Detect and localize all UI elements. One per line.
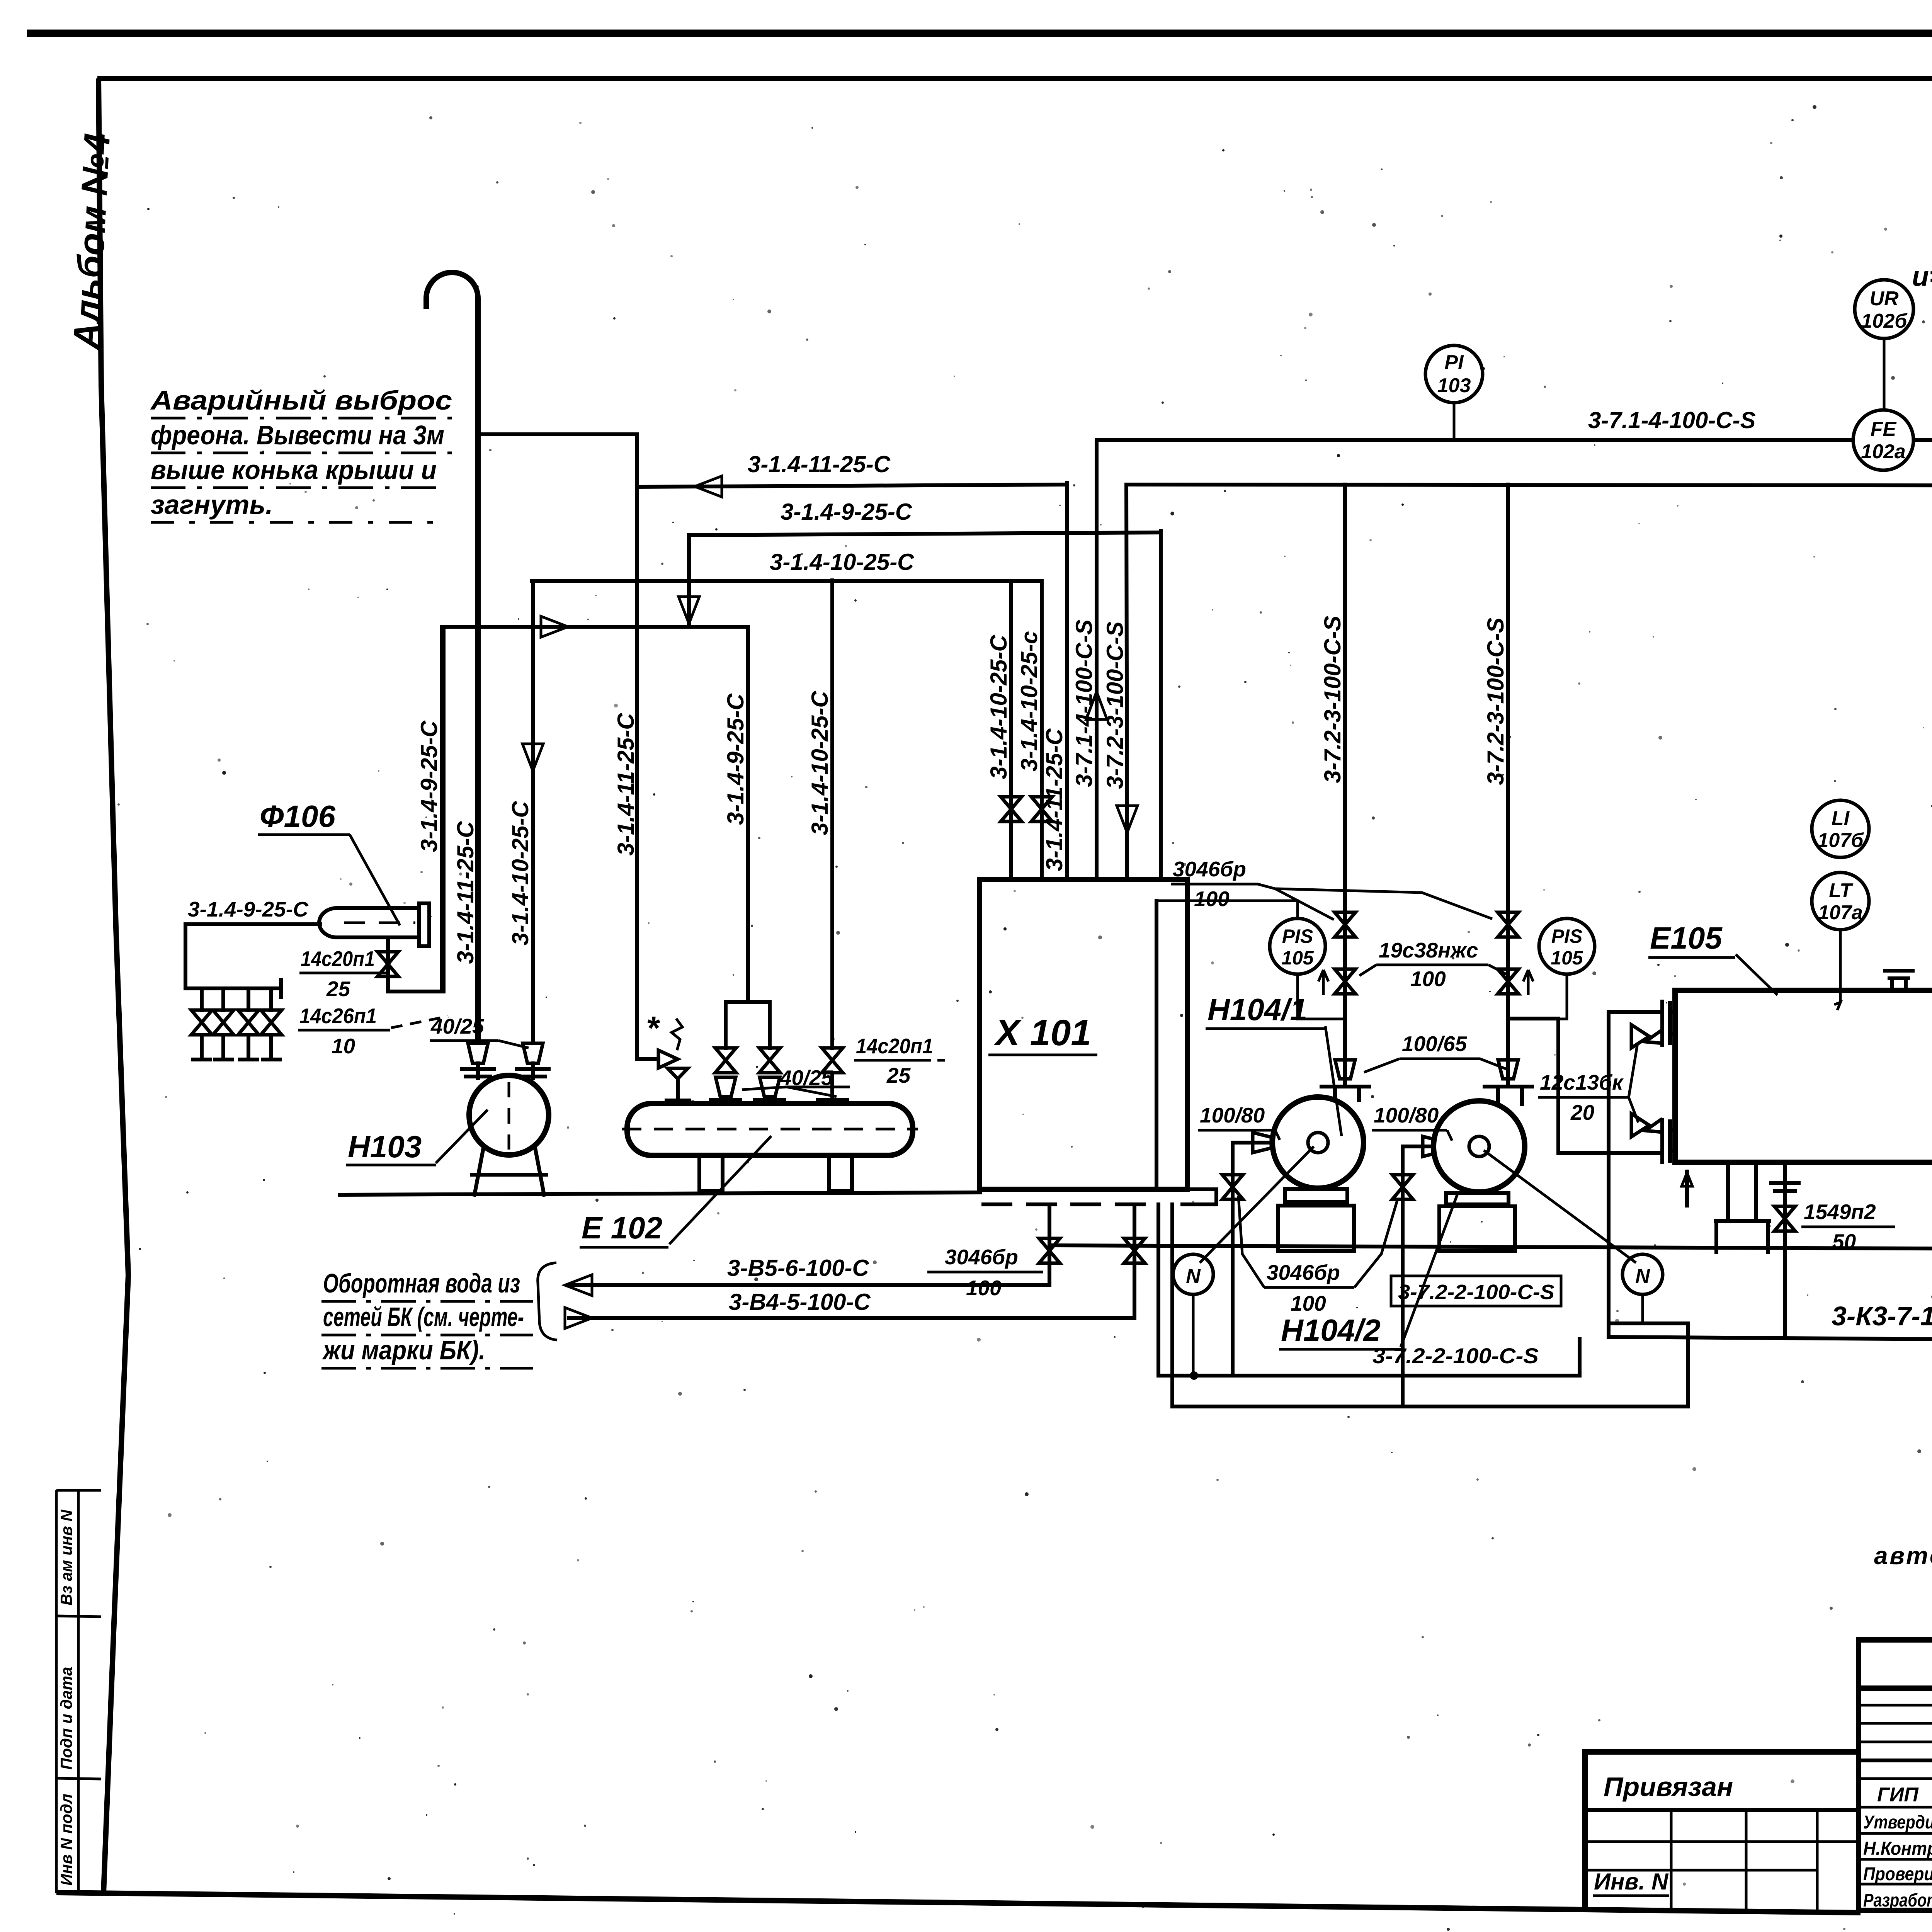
svg-text:Оборотная вода из: Оборотная вода из: [323, 1268, 520, 1298]
svg-text:50: 50: [1832, 1230, 1856, 1253]
valve pump1 suction: [1222, 1175, 1243, 1199]
valve 14c20п1 filter outlet: [378, 952, 398, 976]
svg-text:Е 102: Е 102: [582, 1211, 662, 1245]
E105 support left: [1716, 1162, 1769, 1252]
pump H104/1 pedestal top: [1285, 1189, 1347, 1202]
vessel E102 body: [627, 1104, 913, 1155]
E105 LT dip connection: [1834, 929, 1840, 1010]
outer top border: [27, 30, 1932, 37]
svg-text:N: N: [1635, 1265, 1650, 1287]
inner frame left: [99, 78, 128, 1893]
svg-text:*: *: [646, 1010, 660, 1047]
svg-text:3-7.2-2-100-С-S: 3-7.2-2-100-С-S: [1398, 1281, 1554, 1304]
wire pump2 discharge riser 3-7.2-3 x=3903: [1506, 485, 1510, 1084]
E105 drain valve 1549п2: [1774, 1206, 1795, 1231]
filter centerline dash: [344, 922, 415, 924]
svg-text:3-1.4-10-25-С: 3-1.4-10-25-С: [770, 549, 915, 575]
pump H104/2 hub: [1469, 1136, 1489, 1156]
pump H104/1 base: [1278, 1206, 1354, 1251]
wire branch vertical x=1649 down to relief: [637, 434, 658, 1059]
reducer pump2 discharge: [1498, 1060, 1518, 1079]
pump H104/2 pedestal top: [1446, 1193, 1509, 1204]
svg-text:107б: 107б: [1818, 829, 1864, 852]
wire vent branch right: [478, 432, 637, 436]
svg-text:сетей БК (см. черте-: сетей БК (см. черте-: [323, 1302, 524, 1332]
svg-text:3-1.4-11-25-С: 3-1.4-11-25-С: [748, 451, 891, 477]
E105 drain flange: [1771, 1183, 1799, 1191]
svg-text:жи марки БК).: жи марки БК).: [322, 1335, 485, 1365]
filter Ф106 body: [319, 908, 419, 937]
pump H104/1 hub: [1308, 1133, 1328, 1153]
check arrow tick pump2: [1523, 970, 1533, 995]
svg-text:ГИП: ГИП: [1877, 1784, 1919, 1806]
E102 valve3: [822, 1048, 843, 1073]
manifold end tick: [279, 980, 283, 997]
svg-text:105: 105: [1551, 947, 1583, 969]
E102 centerline dash: [622, 1128, 918, 1131]
X101 bottom right step: [1182, 1189, 1216, 1204]
E102 valve1: [715, 1048, 736, 1073]
svg-text:100: 100: [966, 1276, 1002, 1300]
svg-text:1549п2: 1549п2: [1804, 1200, 1876, 1224]
leaders 19с38нжс to check valves: [1359, 965, 1507, 976]
E102 valve2: [759, 1048, 780, 1073]
svg-text:3-7.2-3-100-С-S: 3-7.2-3-100-С-S: [1102, 621, 1128, 789]
leader H103: [436, 1110, 488, 1163]
svg-text:105: 105: [1281, 947, 1314, 969]
E102 flange1: [711, 1100, 740, 1104]
svg-text:40/25: 40/25: [430, 1014, 485, 1038]
wire pump2 discharge jog to E105 nozzle4: [1508, 1019, 1660, 1153]
wire line C 3-1.4-10-25-C y=1504: [532, 579, 1042, 583]
wire line A 3-1.4-11-25-C y=1258: [637, 485, 1067, 487]
svg-text:Проверил: Проверил: [1863, 1864, 1932, 1884]
E105 left collector vertical: [1607, 1012, 1611, 1337]
svg-text:FE: FE: [1871, 418, 1897, 440]
leader E102: [669, 1136, 771, 1244]
E105 drain pipe: [1783, 1162, 1787, 1337]
svg-text:PIS: PIS: [1551, 925, 1583, 947]
E102 cone2: [760, 1077, 780, 1097]
manifold stem 3: [240, 1035, 257, 1060]
svg-text:10: 10: [332, 1034, 355, 1058]
svg-text:103: 103: [1437, 374, 1471, 397]
valve X101 drain1: [1039, 1238, 1060, 1263]
wire line B right drop into X101: [1159, 531, 1163, 879]
arrow up small at 4366: [1682, 1173, 1692, 1186]
leader Ф106: [350, 835, 400, 925]
TITLEBLOCK: [1585, 1640, 1932, 1932]
wire line B4 y=3411: [569, 1316, 1134, 1320]
filter Ф106 flange plate: [419, 903, 429, 946]
bracket for BK water: [538, 1263, 557, 1340]
wire line B5 y=3326: [570, 1283, 1049, 1287]
instrument PIS 105 no.1: [1270, 918, 1325, 974]
svg-text:автоматизации приняты по ГО: автоматизации приняты по ГОСТ 21.404-85: [1874, 1542, 1932, 1570]
E102 saddle left: [699, 1155, 723, 1191]
svg-text:100: 100: [1194, 887, 1230, 911]
manifold valve 1: [191, 1010, 212, 1035]
valve X101 drain2: [1124, 1238, 1145, 1263]
svg-text:3-К3-7-100-С: 3-К3-7-100-С: [1832, 1301, 1932, 1331]
arrow B4 left end: [565, 1308, 592, 1328]
pump H104/2 circle: [1434, 1101, 1525, 1192]
svg-text:19с38нжс: 19с38нжс: [1379, 938, 1478, 962]
wire line C branch down to E102 valve3: [830, 580, 834, 1048]
E105 left nozzle2 flanges: [1662, 1023, 1675, 1045]
pump H104/2 base: [1439, 1206, 1515, 1251]
reducer pump1 discharge: [1335, 1060, 1355, 1079]
wire filter outlet to riser: [388, 628, 444, 992]
wire line C left drop to H103: [531, 581, 535, 1043]
instrument PI 103: [1425, 345, 1483, 403]
svg-text:25: 25: [326, 977, 351, 1001]
E102 flange3: [818, 1100, 847, 1104]
wire line C right drop into X101: [1040, 581, 1044, 879]
title block outline: [1859, 1640, 1932, 1932]
wire line A corner down into X101: [1065, 483, 1069, 879]
wire line B 3-1.4-9-25-C y=1380: [689, 532, 1161, 535]
svg-text:N: N: [1186, 1265, 1201, 1287]
svg-text:12с13бк: 12с13бк: [1540, 1070, 1624, 1094]
svg-text:3-В5-6-100-С: 3-В5-6-100-С: [727, 1255, 869, 1281]
motor N2: [1622, 1254, 1663, 1294]
angle valve lower: [1631, 1114, 1662, 1137]
svg-text:Н104/2: Н104/2: [1281, 1313, 1381, 1347]
instrument LI 107б: [1812, 800, 1869, 857]
svg-text:107а: 107а: [1818, 901, 1863, 924]
wire pump2 suction: [1403, 1146, 1479, 1406]
leaders suction drains: [1238, 1196, 1398, 1287]
E105 left nozzle4 flanges: [1662, 1141, 1675, 1162]
H103 nozzle left flange: [462, 1069, 494, 1077]
svg-text:3-1.4-9-25-С: 3-1.4-9-25-С: [416, 720, 442, 852]
svg-text:Н103: Н103: [348, 1129, 422, 1164]
check valve pump2 riser: [1498, 969, 1519, 994]
svg-text:100/80: 100/80: [1200, 1103, 1265, 1127]
svg-text:Вз ам инв N: Вз ам инв N: [57, 1509, 75, 1605]
svg-text:100/80: 100/80: [1374, 1103, 1439, 1127]
svg-text:3-7.2-2-100-С-S: 3-7.2-2-100-С-S: [1372, 1344, 1539, 1368]
node L1 junction: [1190, 1371, 1198, 1380]
inner frame bottom: [56, 1893, 1861, 1913]
wire stub up at 4366: [1685, 1172, 1689, 1206]
wire pump1 suction: [1233, 1143, 1318, 1376]
arrow down on line C drop: [522, 744, 543, 771]
svg-text:3046бр: 3046бр: [1267, 1260, 1340, 1284]
arrow down line B drop: [679, 597, 699, 624]
wire 3-1.4-10 into X101 second drop: [1009, 581, 1013, 879]
svg-text:Инв N подл: Инв N подл: [57, 1794, 75, 1886]
svg-text:3046бр: 3046бр: [1173, 857, 1246, 881]
E105 left nozzle1 flanges: [1662, 1002, 1675, 1023]
svg-text:фреона. Вывести на 3м: фреона. Вывести на 3м: [151, 420, 444, 450]
wire corner down into X101 (3-7.2-3): [1126, 485, 1127, 879]
manifold valve 2: [213, 1010, 234, 1035]
H103 pedestal: [472, 1146, 546, 1195]
wire E102 manifold split: [726, 1002, 770, 1048]
svg-text:Инв. N: Инв. N: [1594, 1869, 1669, 1895]
wire X101 drain valve1 drop: [1048, 1204, 1051, 1285]
H103 nozzle right flange: [517, 1069, 549, 1077]
wire K3 drain header 3-K3-7-100-C: [1609, 1337, 1932, 1430]
svg-text:14с26п1: 14с26п1: [299, 1004, 377, 1028]
name rows: [1859, 1779, 1932, 1884]
svg-text:3-7.2-3-100-С-S: 3-7.2-3-100-С-S: [1483, 617, 1509, 785]
svg-text:UR: UR: [1869, 287, 1899, 310]
thin rows left: [1859, 1705, 1932, 1742]
wire PIS2 connection: [1508, 966, 1567, 1019]
wire line D right drop to E102 manifold: [746, 627, 750, 1002]
svg-text:3046бр: 3046бр: [945, 1245, 1018, 1269]
PIPES: [185, 272, 1932, 1461]
relief valve angle body: [658, 1050, 688, 1079]
label frame 3-7.2-2 no.1: [1391, 1276, 1561, 1306]
svg-text:25: 25: [886, 1063, 911, 1087]
svg-text:3-1.4-10-25-С: 3-1.4-10-25-С: [986, 634, 1012, 779]
svg-text:выше конька крыши и: выше конька крыши и: [151, 455, 437, 485]
manifold drop 4: [269, 988, 273, 1010]
E102 flange2: [755, 1100, 784, 1104]
INSTRUMENTS: [1173, 280, 1932, 1294]
leaders 3046бр to valves: [1258, 884, 1492, 920]
svg-text:20: 20: [1570, 1100, 1595, 1124]
valve on pump2 riser: [1498, 912, 1519, 937]
E102 valve3 stem: [830, 1073, 834, 1100]
check valve pump1 riser: [1335, 969, 1355, 994]
wire pump1 discharge riser 3-7.2-3 x=3481: [1343, 485, 1347, 1084]
svg-text:загнуть.: загнуть.: [151, 490, 273, 520]
wire emergency vent vertical 3-1.4-11-25-C: [475, 298, 481, 1041]
wire N1 drop: [1192, 1294, 1195, 1376]
motor N1 shaft diagonal: [1200, 1146, 1314, 1263]
arrow down on 3-7.2-3 X101 drop: [1117, 806, 1138, 833]
svg-text:14с20п1: 14с20п1: [301, 947, 375, 971]
manifold valve 4: [261, 1010, 282, 1035]
instrument LT 107а: [1812, 872, 1869, 930]
pump H104/2 nozzle: [1498, 1087, 1522, 1104]
svg-text:Разработ.: Разработ.: [1863, 1890, 1932, 1911]
svg-text:100/65: 100/65: [1402, 1032, 1468, 1056]
manifold stem 2: [215, 1035, 232, 1060]
arrow B5 left end: [565, 1275, 592, 1296]
svg-text:Подп и дата: Подп и дата: [57, 1667, 75, 1770]
H103 nozzle right stub: [531, 1063, 535, 1078]
svg-text:3-В4-5-100-С: 3-В4-5-100-С: [729, 1289, 871, 1315]
svg-text:3-1.4-10-25-с: 3-1.4-10-25-с: [1016, 631, 1042, 772]
Привязан row line: [1585, 1808, 1859, 1812]
sub cols: [1671, 1810, 1817, 1912]
svg-text:Привязан: Привязан: [1604, 1772, 1733, 1802]
left margin strip boxes: [55, 1490, 58, 1893]
svg-text:Утвердил: Утвердил: [1863, 1812, 1932, 1833]
wire UR-FE connect: [1883, 338, 1886, 411]
wire line D left riser from filter: [440, 627, 444, 992]
wire line B left drop to line D: [687, 535, 691, 626]
svg-text:3-1.4-11-25-С: 3-1.4-11-25-С: [452, 821, 478, 964]
pump H104/1 nozzle: [1335, 1087, 1359, 1100]
valve on 2696 drop: [1031, 797, 1052, 821]
manifold stem 1: [193, 1035, 210, 1060]
valve on pump1 riser: [1335, 912, 1355, 937]
wire X101 drain left L1: [1158, 1204, 1580, 1376]
manifold valve 3: [238, 1010, 259, 1035]
manifold drop 2: [221, 988, 225, 1010]
svg-text:Н104/1: Н104/1: [1207, 992, 1307, 1027]
motor N1: [1173, 1254, 1213, 1294]
H103 nozzle left reducer: [468, 1043, 488, 1063]
wire corner down into X101 (3-7.1-4): [1095, 440, 1099, 879]
motor N2 shaft diagonal: [1484, 1150, 1636, 1263]
instrument PIS 105 no.2: [1539, 918, 1595, 974]
wire Ф106 inlet loop: [185, 924, 320, 988]
H103 nozzle right reducer: [523, 1043, 543, 1063]
inner frame top: [97, 76, 1932, 81]
arrow line A flow left: [695, 476, 722, 497]
arrow flow right on line D: [541, 616, 568, 637]
svg-text:3-1.4-9-25-С: 3-1.4-9-25-С: [723, 693, 748, 825]
sub rows: [1585, 1842, 1859, 1870]
wire floor line pumps/E105: [1051, 1245, 1932, 1249]
pump H104/1 circle: [1272, 1097, 1364, 1188]
svg-text:3-1.4-10-25-С: 3-1.4-10-25-С: [507, 801, 533, 946]
check arrow tick pump1: [1318, 970, 1328, 995]
arrow up on 3-7.1-4 X101 drop: [1086, 692, 1107, 719]
wire PIS1 connection: [1156, 901, 1345, 1019]
E102 saddle right: [829, 1155, 852, 1191]
row thick y4369: [1859, 1685, 1932, 1691]
svg-text:Аварийный выброс: Аварийный выброс: [150, 385, 452, 415]
relief valve stem to E102: [667, 1079, 689, 1104]
svg-text:3-1.4-10-25-С: 3-1.4-10-25-С: [807, 690, 833, 835]
E102 cone1: [716, 1077, 736, 1097]
instrument UR 102б: [1855, 280, 1913, 338]
E105 top vent fitting: [1885, 971, 1913, 990]
svg-text:100: 100: [1410, 967, 1446, 991]
svg-text:14с20п1: 14с20п1: [856, 1034, 933, 1058]
svg-text:3-7.1-4-100-С-S: 3-7.1-4-100-С-S: [1588, 407, 1756, 433]
wire X101 drain valve2 drop: [1133, 1204, 1136, 1318]
relief valve spring symbol: [672, 1019, 682, 1050]
flange pump1 discharge: [1321, 1085, 1369, 1088]
angle valve upper: [1631, 1025, 1662, 1048]
svg-text:102б: 102б: [1861, 310, 1908, 332]
wire N2 drop: [1641, 1294, 1644, 1323]
H103 center dash: [508, 1082, 510, 1150]
svg-text:3-1.4-11-25-С: 3-1.4-11-25-С: [1041, 728, 1067, 871]
vessel E105 body: [1675, 990, 1932, 1162]
valve on 2617 drop: [1001, 797, 1022, 821]
svg-text:Е105: Е105: [1650, 921, 1723, 955]
svg-text:3-1.4-9-25-С: 3-1.4-9-25-С: [781, 499, 913, 525]
wire main header 3-7.1-4-100-C-S: [1097, 438, 1932, 442]
svg-text:Ф106: Ф106: [260, 799, 335, 833]
svg-text:u=f(F,P): u=f(F,P): [1912, 261, 1932, 292]
svg-text:3-7.1-4-100-С-S: 3-7.1-4-100-С-S: [1071, 619, 1097, 787]
wire X101 drain right L2: [1172, 1204, 1688, 1406]
reducer pump2 suction: [1423, 1136, 1441, 1156]
instrument FE 102а: [1853, 410, 1913, 470]
svg-text:PI: PI: [1444, 351, 1464, 374]
svg-text:102а: 102а: [1861, 440, 1906, 463]
svg-text:Н.Контр.: Н.Контр.: [1863, 1838, 1932, 1859]
EQUIPMENT: [319, 879, 1932, 1337]
svg-text:3-7.2-3-100-С-S: 3-7.2-3-100-С-S: [1320, 616, 1345, 783]
svg-text:3-1.4-9-25-С: 3-1.4-9-25-С: [188, 897, 309, 921]
E105 left nozzle3 flanges: [1662, 1120, 1675, 1141]
E105 nozzle1 stub: [1609, 1010, 1662, 1014]
manifold drop 1: [200, 988, 204, 1010]
pump H103 circle: [469, 1075, 549, 1155]
svg-text:Х 101: Х 101: [993, 1012, 1091, 1053]
svg-text:PIS: PIS: [1282, 925, 1313, 947]
svg-text:LI: LI: [1832, 807, 1850, 830]
wire emergency vent hook: [426, 272, 478, 309]
svg-text:100: 100: [1291, 1291, 1326, 1315]
flange pump2 discharge: [1485, 1085, 1532, 1088]
Привязан sub-block outline: [1585, 1752, 1859, 1910]
leader H104/1: [1325, 1026, 1342, 1136]
wire base line H103/E102/X101: [340, 1192, 980, 1195]
manifold stem 4: [263, 1035, 280, 1060]
row y4556: [1859, 1759, 1932, 1762]
manifold drop 3: [247, 988, 250, 1010]
reducer pump1 suction: [1253, 1133, 1271, 1153]
X101 chiller body: [980, 879, 1187, 1189]
svg-text:LT: LT: [1829, 879, 1854, 902]
leader E105: [1736, 954, 1777, 995]
H103 nozzle left stub: [476, 1063, 480, 1078]
wire header2 3-7.2-3 y=1254: [1126, 485, 1932, 486]
valve pump2 suction: [1392, 1175, 1413, 1199]
X101 bottom dashed: [983, 1202, 1144, 1206]
leaders 12с13бк to angle valves: [1629, 1043, 1638, 1122]
X101 inner partition: [1155, 901, 1158, 1189]
wire PI103 tap: [1453, 403, 1456, 440]
svg-text:3-1.4-11-25-С: 3-1.4-11-25-С: [613, 713, 639, 856]
leader H104/2: [1401, 1194, 1458, 1347]
wire line D filter outlet y=1622: [442, 625, 747, 629]
